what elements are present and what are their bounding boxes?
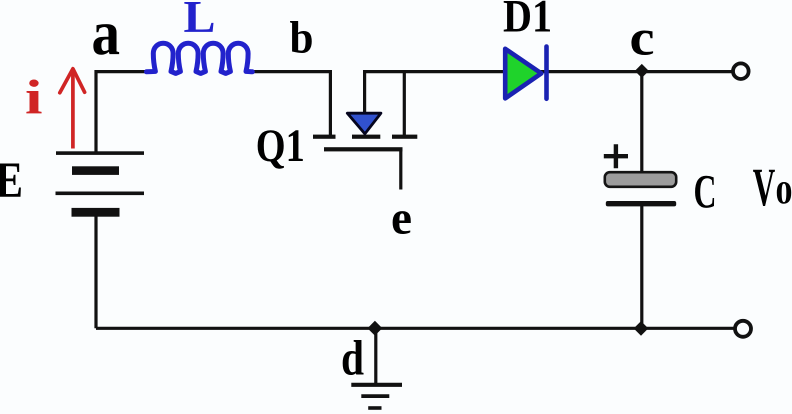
svg-text:i: i <box>25 70 43 125</box>
junction dot at capacitor bottom <box>634 321 649 336</box>
wire: drop to transistor arrow <box>363 72 366 114</box>
transistor Q1 lower (gate) bar <box>324 147 403 151</box>
transistor Q1 arrow (blue triangle) <box>347 113 381 134</box>
capacitor C bottom plate (black) <box>606 201 676 206</box>
svg-text:E: E <box>0 153 23 209</box>
wire: bottom rail <box>96 327 735 330</box>
transistor Q1 upper bar left segment <box>313 135 336 139</box>
svg-text:C: C <box>694 166 717 219</box>
wire: capacitor bottom branch <box>640 206 643 329</box>
wire: drop to transistor right contact <box>403 72 406 137</box>
svg-text:L: L <box>184 0 216 42</box>
battery E plate 1 (long) <box>56 151 144 155</box>
capacitor C top plate (gray) <box>605 172 676 187</box>
current arrow i (red) <box>71 70 75 149</box>
node c junction dot <box>635 64 649 78</box>
svg-text:0: 0 <box>776 176 792 212</box>
svg-text:c: c <box>630 10 655 66</box>
diode D1 triangle <box>505 49 541 99</box>
svg-text:b: b <box>290 12 314 63</box>
battery E plate 4 (short thick) <box>72 208 120 217</box>
wire: main top wire from switch to output terminal <box>363 70 733 73</box>
ground bar 3 <box>368 406 381 410</box>
transistor Q1 upper bar right segment <box>392 135 417 139</box>
ground bar 2 <box>361 394 389 398</box>
svg-text:D1: D1 <box>503 0 552 42</box>
svg-text:d: d <box>341 329 364 385</box>
svg-text:e: e <box>391 192 412 245</box>
svg-text:V: V <box>753 157 776 217</box>
output terminal bottom (circle) <box>735 321 751 337</box>
wire: capacitor top branch from node c <box>640 72 643 173</box>
battery E plate 2 (short thick) <box>72 166 119 175</box>
ground bar 1 <box>351 383 402 387</box>
capacitor plus sign <box>604 144 628 168</box>
output terminal top (circle) <box>733 63 749 79</box>
node d junction dot <box>368 321 383 336</box>
wire: battery bottom lead <box>94 214 97 328</box>
svg-text:a: a <box>92 0 121 68</box>
wire: ground stem <box>374 328 377 385</box>
wire: gate lead down to e <box>399 149 402 190</box>
battery E plate 3 (long) <box>56 192 145 196</box>
inductor L coil <box>147 43 253 73</box>
wire: coil end to node b, drop to switch left bar <box>252 72 330 137</box>
svg-text:Q1: Q1 <box>256 121 305 172</box>
diode D1 cathode bar <box>544 47 549 99</box>
transistor Q1 upper bar middle segment <box>352 135 380 139</box>
wire: battery top lead to node a corner <box>96 72 147 152</box>
